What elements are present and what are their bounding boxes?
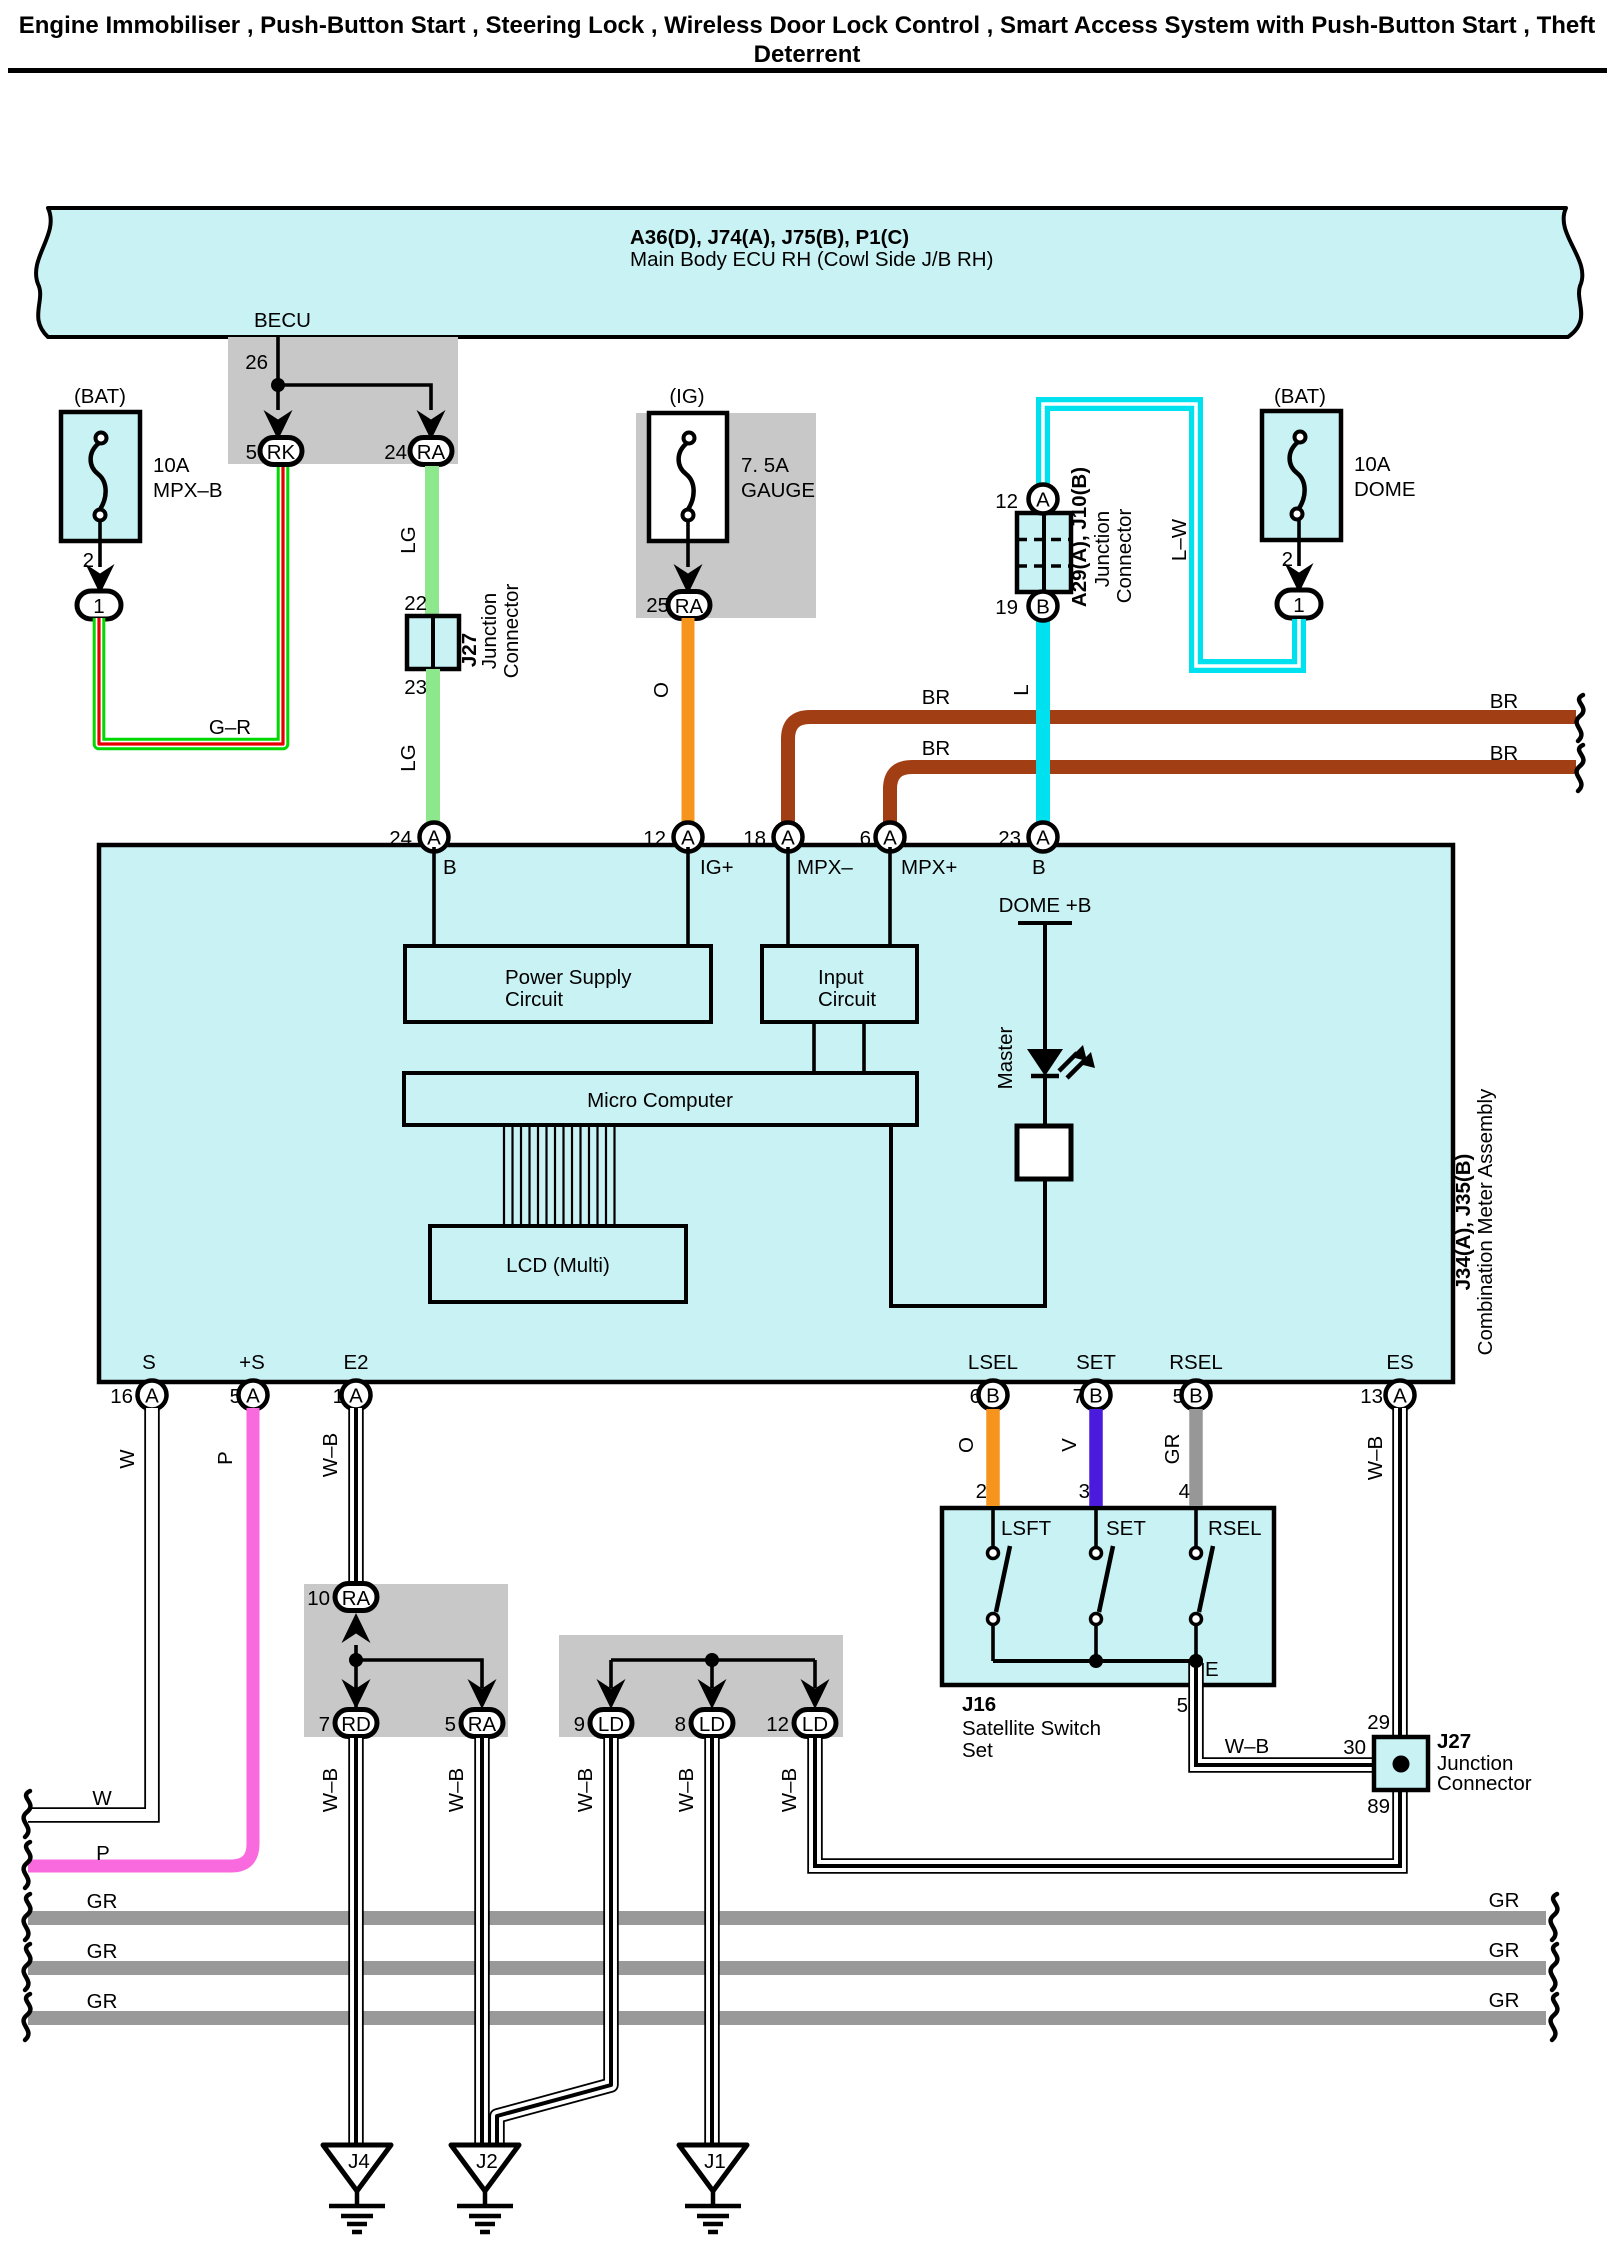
svg-text:10A: 10A [1354, 453, 1391, 476]
svg-text:4: 4 [1179, 1480, 1190, 1503]
svg-text:W–B: W–B [1225, 1735, 1269, 1758]
svg-text:RSEL: RSEL [1169, 1351, 1223, 1374]
gray highlight under BECU [228, 337, 458, 464]
svg-text:3: 3 [1079, 1480, 1090, 1503]
svg-text:5: 5 [1177, 1694, 1188, 1717]
svg-text:Satellite Switch: Satellite Switch [962, 1717, 1101, 1740]
micro computer [404, 1073, 917, 1125]
svg-text:BR: BR [1490, 690, 1518, 713]
svg-text:89: 89 [1367, 1795, 1390, 1818]
arrow into 12 LD [801, 1679, 830, 1709]
svg-text:12: 12 [766, 1713, 789, 1736]
svg-text:J2: J2 [476, 2150, 498, 2173]
svg-text:W–B: W–B [1364, 1436, 1387, 1480]
wire L from A29 pin B to pin 23 A [1036, 620, 1050, 826]
svg-text:P: P [214, 1451, 237, 1465]
GR bus bar 1 [28, 1911, 1546, 1925]
wire branch for LD connectors [611, 1660, 815, 1688]
svg-text:B: B [1032, 856, 1046, 879]
svg-text:W–B: W–B [675, 1768, 698, 1812]
wire G-R from connector 1 to RK [99, 467, 283, 744]
svg-text:GR: GR [1489, 1989, 1520, 2012]
svg-text:GR: GR [87, 1990, 118, 2013]
connector 25 RA [668, 592, 710, 619]
wire W-B from 9 LD joining J2 [497, 1738, 611, 2146]
svg-text:LD: LD [699, 1713, 725, 1736]
wire DOME +B to LED [1043, 923, 1047, 1050]
svg-text:GR: GR [1489, 1939, 1520, 1962]
svg-text:A: A [883, 827, 897, 850]
wire W-B from 8 LD to ground J1 [704, 1738, 720, 2146]
wire LG from RA to J27 [425, 466, 439, 618]
ground J2 [451, 2145, 519, 2191]
wire fuse to connector 25 RA [686, 520, 690, 567]
svg-text:A: A [349, 1385, 363, 1408]
svg-text:26: 26 [245, 351, 268, 374]
wavy break BR1 [1577, 695, 1584, 741]
svg-text:B: B [986, 1385, 1000, 1408]
svg-text:23: 23 [404, 676, 427, 699]
svg-text:Master: Master [994, 1027, 1017, 1090]
power supply circuit [405, 946, 711, 1022]
svg-text:1: 1 [93, 595, 104, 618]
wire fuse to pin 2 [98, 520, 102, 567]
svg-text:A29(A), J10(B): A29(A), J10(B) [1068, 467, 1091, 607]
wire W from pin 16 [28, 1408, 152, 1815]
svg-text:16: 16 [110, 1385, 133, 1408]
wire MPX- to input circuit [786, 847, 790, 946]
svg-text:O: O [650, 682, 673, 698]
svg-text:RK: RK [267, 441, 296, 464]
svg-text:Micro Computer: Micro Computer [587, 1089, 733, 1112]
svg-text:W–B: W–B [445, 1768, 468, 1812]
wire MPX+ to input circuit [888, 847, 892, 946]
svg-text:B: B [443, 856, 457, 879]
svg-text:12: 12 [995, 490, 1018, 513]
svg-text:LSFT: LSFT [1001, 1517, 1052, 1540]
arrow into 5 RA [468, 1679, 497, 1709]
wire from BECU pin 26 [278, 337, 431, 410]
svg-text:24: 24 [384, 441, 407, 464]
svg-text:J16: J16 [962, 1693, 996, 1716]
svg-text:L: L [1010, 684, 1033, 695]
svg-text:Junction: Junction [1091, 511, 1114, 587]
svg-text:10A: 10A [153, 454, 190, 477]
svg-text:23: 23 [998, 827, 1021, 850]
svg-text:S: S [142, 1351, 156, 1374]
wire BR (MPX-) [788, 717, 1576, 835]
svg-text:A: A [781, 827, 795, 850]
svg-text:19: 19 [995, 596, 1018, 619]
fuse 7.5A GAUGE (IG) gray highlight [636, 413, 816, 618]
svg-text:RSEL: RSEL [1208, 1517, 1262, 1540]
wire L-W from connector 1 DOME to A29 pin A [1043, 404, 1299, 666]
svg-text:RA: RA [675, 595, 704, 618]
svg-text:(BAT): (BAT) [1274, 385, 1326, 408]
svg-text:Circuit: Circuit [818, 988, 876, 1011]
svg-text:Combination Meter Assembly: Combination Meter Assembly [1474, 1088, 1497, 1355]
svg-text:A: A [1393, 1385, 1407, 1408]
svg-text:P: P [96, 1842, 110, 1865]
svg-text:+S: +S [239, 1351, 265, 1374]
svg-text:W–B: W–B [574, 1768, 597, 1812]
svg-text:E: E [1205, 1658, 1219, 1681]
svg-text:SET: SET [1106, 1517, 1146, 1540]
svg-text:10: 10 [307, 1587, 330, 1610]
svg-text:Circuit: Circuit [505, 988, 563, 1011]
Combination Meter Assembly J34(A) J35(B) [99, 845, 1453, 1382]
arrow into 9 LD [597, 1679, 626, 1709]
svg-text:RA: RA [342, 1587, 371, 1610]
junction connector A29(A) J10(B) [1017, 513, 1071, 592]
node E bus [993, 1659, 1196, 1663]
svg-text:DOME +B: DOME +B [999, 894, 1092, 917]
svg-text:RD: RD [341, 1713, 371, 1736]
svg-text:GR: GR [1489, 1889, 1520, 1912]
svg-text:Connector: Connector [1437, 1772, 1532, 1795]
gray highlight RD/RA connectors [304, 1584, 508, 1737]
svg-text:5: 5 [445, 1713, 456, 1736]
svg-text:E2: E2 [343, 1351, 368, 1374]
svg-text:W–B: W–B [319, 1433, 342, 1477]
svg-text:LD: LD [598, 1713, 624, 1736]
svg-text:A: A [145, 1385, 159, 1408]
svg-text:GR: GR [87, 1940, 118, 1963]
ribbon wires micro to LCD [504, 1125, 615, 1226]
svg-text:(IG): (IG) [669, 385, 704, 408]
GR bus bar 2 [28, 1961, 1546, 1975]
svg-text:O: O [955, 1437, 978, 1453]
arrow into RK [264, 410, 293, 440]
wire O stub pin 2 [986, 1409, 1000, 1506]
wire W-B from 7 RD to ground J4 [348, 1738, 364, 2146]
svg-text:ES: ES [1386, 1351, 1413, 1374]
wire V stub pin 3 [1089, 1409, 1103, 1506]
wire P from pin 5 [28, 1408, 253, 1866]
svg-text:W–B: W–B [778, 1768, 801, 1812]
svg-text:MPX–: MPX– [797, 856, 853, 879]
svg-text:BR: BR [922, 686, 950, 709]
svg-text:5: 5 [246, 441, 257, 464]
svg-text:GAUGE: GAUGE [741, 479, 815, 502]
svg-text:Connector: Connector [500, 584, 523, 679]
svg-text:9: 9 [574, 1713, 585, 1736]
wavy break BR2 [1577, 745, 1584, 791]
wire O from 25 RA to pin 12 A [682, 618, 695, 826]
connector 1 (MPX-B) [77, 591, 121, 619]
svg-text:W: W [92, 1787, 112, 1810]
arrow into 7 RD [342, 1679, 371, 1709]
svg-text:LSEL: LSEL [968, 1351, 1018, 1374]
wire W-B from 5 RA to ground J2 [474, 1738, 490, 2146]
arrow into connector 1 [1285, 563, 1314, 593]
svg-text:L–W: L–W [1168, 518, 1191, 561]
svg-text:B: B [1089, 1385, 1103, 1408]
svg-text:LD: LD [802, 1713, 828, 1736]
junction connector J27 (lower) [1374, 1737, 1428, 1790]
arrow into RA [417, 410, 446, 440]
svg-text:IG+: IG+ [700, 856, 734, 879]
svg-text:J34(A), J35(B): J34(A), J35(B) [1452, 1154, 1475, 1291]
wire W-B from pin 13 ES to J27 [1392, 1408, 1408, 1736]
svg-text:30: 30 [1343, 1736, 1366, 1759]
wires input to micro computer [814, 1022, 864, 1073]
svg-text:Engine Immobiliser , Push-Butt: Engine Immobiliser , Push-Button Start ,… [19, 12, 1595, 39]
svg-text:LG: LG [397, 744, 420, 771]
arrow into 8 LD [698, 1679, 727, 1709]
svg-text:MPX+: MPX+ [901, 856, 957, 879]
svg-text:SET: SET [1076, 1351, 1116, 1374]
connector 1 (DOME) [1277, 590, 1321, 618]
wire B to power supply [432, 847, 436, 946]
junction dot [349, 1653, 363, 1667]
svg-text:V: V [1058, 1438, 1081, 1452]
svg-text:B: B [1036, 596, 1050, 619]
wire IG+ to power supply [686, 847, 690, 946]
svg-text:LCD (Multi): LCD (Multi) [506, 1254, 610, 1277]
LCD (Multi) [430, 1226, 686, 1302]
svg-text:7. 5A: 7. 5A [741, 454, 789, 477]
svg-text:G–R: G–R [209, 716, 251, 739]
svg-text:A: A [1036, 827, 1050, 850]
resistor block [1017, 1126, 1071, 1179]
svg-text:6: 6 [860, 827, 871, 850]
junction connector J27 (upper) [407, 616, 459, 669]
ground J4 [323, 2145, 391, 2191]
wire GR stub pin 4 [1189, 1409, 1203, 1506]
wire 10 RA to branch [356, 1645, 482, 1710]
svg-text:29: 29 [1367, 1711, 1390, 1734]
wire W-B from 12 LD to J27 [815, 1738, 1400, 1866]
svg-text:2: 2 [976, 1480, 987, 1503]
svg-text:1: 1 [1293, 594, 1304, 617]
arrow up into 10 RA [342, 1613, 371, 1643]
title rule [8, 68, 1607, 73]
svg-text:A: A [246, 1385, 260, 1408]
svg-text:Main Body ECU RH (Cowl Side J/: Main Body ECU RH (Cowl Side J/B RH) [630, 248, 993, 271]
svg-text:24: 24 [389, 827, 412, 850]
svg-text:Junction: Junction [478, 593, 501, 669]
svg-text:GR: GR [1161, 1434, 1184, 1465]
wire W-B from pin 1 E2 [348, 1408, 364, 1590]
wire BR (MPX+) [890, 767, 1576, 835]
svg-text:MPX–B: MPX–B [153, 479, 223, 502]
svg-text:RA: RA [417, 441, 446, 464]
junction dot [705, 1653, 719, 1667]
svg-text:18: 18 [743, 827, 766, 850]
svg-text:BR: BR [1490, 742, 1518, 765]
svg-text:BECU: BECU [254, 309, 311, 332]
svg-text:A36(D), J74(A), J75(B), P1(C): A36(D), J74(A), J75(B), P1(C) [630, 226, 909, 249]
svg-text:RA: RA [468, 1713, 497, 1736]
svg-text:BR: BR [922, 737, 950, 760]
svg-text:GR: GR [87, 1890, 118, 1913]
svg-text:DOME: DOME [1354, 478, 1416, 501]
svg-text:7: 7 [319, 1713, 330, 1736]
arrow into connector 1 [86, 564, 115, 594]
junction dot [271, 378, 285, 392]
svg-text:8: 8 [675, 1713, 686, 1736]
svg-text:LG: LG [397, 526, 420, 553]
svg-text:Set: Set [962, 1739, 993, 1762]
wire LED to resistor [1043, 1076, 1047, 1126]
ground J1 [679, 2145, 747, 2191]
svg-text:W: W [116, 1449, 139, 1469]
svg-text:J1: J1 [704, 2150, 726, 2173]
input circuit [762, 946, 917, 1022]
svg-text:J27: J27 [1437, 1730, 1471, 1753]
wire fuse to pin 2 [1297, 519, 1301, 566]
Main Body ECU bar A36(D) J74(A) J75(B) P1(C) [36, 208, 1582, 337]
GR bus bar 3 [28, 2011, 1546, 2025]
svg-text:B: B [1189, 1385, 1203, 1408]
svg-text:13: 13 [1360, 1385, 1383, 1408]
svg-text:W–B: W–B [319, 1768, 342, 1812]
satellite switch set J16 [942, 1508, 1274, 1685]
svg-text:Connector: Connector [1113, 509, 1136, 604]
svg-text:A: A [427, 827, 441, 850]
svg-text:22: 22 [404, 592, 427, 615]
wire W-B from E pin 5 to J27 [1196, 1663, 1372, 1765]
svg-text:A: A [681, 827, 695, 850]
wire resistor to micro computer [891, 1125, 1045, 1306]
svg-text:J4: J4 [348, 2150, 370, 2173]
svg-text:A: A [1036, 489, 1050, 512]
svg-text:12: 12 [643, 827, 666, 850]
svg-text:Input: Input [818, 966, 864, 989]
svg-text:Power Supply: Power Supply [505, 966, 632, 989]
gray highlight LD connectors [559, 1635, 843, 1737]
svg-text:Deterrent: Deterrent [754, 41, 861, 68]
svg-text:(BAT): (BAT) [74, 385, 126, 408]
